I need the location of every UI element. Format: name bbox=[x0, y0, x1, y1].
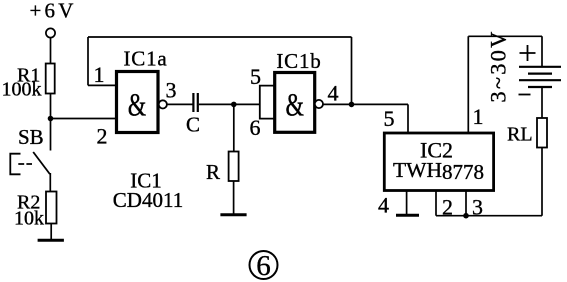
node C junction dot bbox=[349, 102, 355, 108]
power +6V terminal bbox=[46, 28, 55, 37]
label IC1 bbox=[130, 169, 162, 193]
figure number 6 bbox=[250, 250, 278, 282]
wire IC1b out to IC2 pin 5 bbox=[323, 104, 408, 133]
label RL bbox=[507, 124, 533, 146]
wire battery to RL bbox=[541, 87, 543, 118]
node B junction dot bbox=[231, 102, 237, 108]
wire node B down to R bbox=[233, 104, 235, 151]
wire node A to IC1a pin 2 bbox=[51, 118, 117, 120]
svg-text:TWH8778: TWH8778 bbox=[393, 158, 484, 184]
svg-text:RL: RL bbox=[507, 124, 533, 146]
label CD4011 bbox=[113, 188, 183, 212]
svg-text:3~30V: 3~30V bbox=[486, 29, 511, 102]
pin 6 label bbox=[250, 115, 261, 140]
svg-text:2: 2 bbox=[97, 124, 108, 149]
battery plus sign bbox=[520, 45, 536, 61]
wire feedback top bbox=[88, 37, 352, 85]
NAND gate IC1b output bubble bbox=[315, 100, 323, 108]
pin 2 label IC2 bbox=[442, 195, 453, 220]
NAND gate IC1b input bracket bbox=[260, 86, 275, 119]
resistor R2 bbox=[46, 192, 57, 224]
svg-text:&: & bbox=[286, 87, 305, 123]
pin 5 label bbox=[250, 64, 261, 89]
svg-text:C: C bbox=[186, 113, 200, 137]
wire R2 to ground bbox=[50, 224, 52, 240]
pin 1 label bbox=[94, 62, 105, 87]
pin 5 label IC2 bbox=[384, 106, 395, 131]
wire node A down to switch bbox=[50, 119, 52, 151]
wire R1 to node A bbox=[50, 94, 52, 119]
wire R to ground bbox=[233, 181, 235, 214]
pin 4 label bbox=[328, 81, 339, 106]
NAND gate IC1a output bubble bbox=[159, 100, 167, 108]
wire switch to R2 bbox=[49, 173, 51, 192]
svg-text:CD4011: CD4011 bbox=[113, 188, 183, 212]
ground under R2 bbox=[38, 239, 64, 242]
svg-text:IC1a: IC1a bbox=[123, 47, 167, 71]
switch SB actuator dashed link bbox=[18, 163, 32, 165]
label IC1a bbox=[123, 47, 167, 71]
node A junction dot bbox=[48, 116, 54, 122]
svg-text:6: 6 bbox=[250, 115, 261, 140]
svg-text:100k: 100k bbox=[2, 79, 42, 101]
NAND gate IC1a bbox=[117, 72, 159, 133]
svg-text:+6V: +6V bbox=[30, 0, 77, 23]
svg-text:10k: 10k bbox=[14, 208, 44, 230]
pin 4 label IC2 bbox=[378, 193, 389, 218]
resistor R bbox=[229, 152, 239, 182]
label SB bbox=[18, 125, 44, 149]
svg-text:3: 3 bbox=[166, 78, 177, 103]
battery 3~30V plates bbox=[519, 67, 561, 87]
svg-text:6: 6 bbox=[256, 250, 271, 282]
wire bottom rail to RL bbox=[436, 148, 542, 216]
battery minus sign bbox=[519, 94, 531, 96]
ground under R bbox=[220, 213, 246, 216]
svg-text:1: 1 bbox=[473, 104, 484, 129]
wire IC1a out to capacitor bbox=[167, 103, 193, 105]
svg-text:SB: SB bbox=[18, 125, 44, 149]
value 10k bbox=[14, 208, 44, 230]
switch SB blade bbox=[33, 152, 50, 174]
svg-text:4: 4 bbox=[328, 81, 339, 106]
wire node C up to feedback bbox=[351, 37, 353, 104]
IC2 TWH8778 bbox=[384, 133, 493, 191]
svg-text:4: 4 bbox=[378, 193, 389, 218]
pin 3 label bbox=[166, 78, 177, 103]
wire terminal to R1 bbox=[50, 38, 52, 64]
pin 2 label bbox=[97, 124, 108, 149]
resistor R1 bbox=[46, 64, 55, 94]
wire capacitor to IC1b inputs bbox=[199, 103, 260, 105]
switch SB pushbutton cap bbox=[10, 154, 20, 175]
wire IC2 pin 1 up and over to battery bbox=[468, 36, 542, 133]
pin 1 label IC2 bbox=[473, 104, 484, 129]
svg-text:1: 1 bbox=[94, 62, 105, 87]
wire IC2 pin 3 down bbox=[465, 191, 467, 216]
capacitor C bbox=[193, 93, 197, 112]
pin 3 label IC2 bbox=[472, 195, 483, 220]
wire IC2 pin 2 down bbox=[435, 191, 437, 216]
label R1 bbox=[17, 65, 40, 87]
wire IC2 pin 4 to ground bbox=[406, 191, 408, 215]
ground under IC2 pin 4 bbox=[396, 214, 419, 217]
label C bbox=[186, 113, 200, 137]
power +6V label bbox=[30, 0, 77, 23]
node D junction dot bbox=[463, 213, 469, 219]
svg-text:IC1b: IC1b bbox=[276, 49, 321, 73]
NAND gate IC1b bbox=[275, 73, 315, 133]
svg-text:&: & bbox=[128, 87, 147, 123]
battery value 3~30V bbox=[486, 29, 511, 102]
value 100k bbox=[2, 79, 42, 101]
svg-text:R: R bbox=[206, 160, 220, 184]
svg-text:5: 5 bbox=[384, 106, 395, 131]
label R bbox=[206, 160, 220, 184]
label IC1b bbox=[276, 49, 321, 73]
resistor RL bbox=[537, 118, 547, 148]
label R2 bbox=[17, 192, 40, 214]
